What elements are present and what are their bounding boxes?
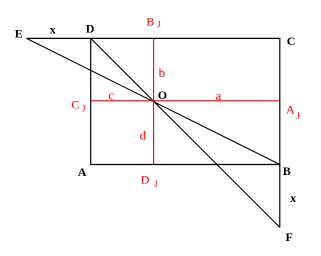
node C1 label <box>71 98 86 114</box>
node D1 label <box>141 173 158 190</box>
node F label <box>286 230 293 244</box>
svg-text:F: F <box>286 230 293 244</box>
wire: diagonal D-F through O <box>91 38 280 227</box>
wire: red horizontal line C1-O-A1 <box>91 100 279 102</box>
svg-text:x: x <box>50 23 56 37</box>
svg-text:J: J <box>296 111 300 121</box>
svg-text:B: B <box>283 164 291 178</box>
svg-text:J: J <box>154 179 158 189</box>
node E label <box>15 26 23 40</box>
wire: diagonal E-B through O <box>27 38 280 164</box>
svg-text:D: D <box>141 173 150 187</box>
node A1 label <box>286 103 300 122</box>
svg-text:J: J <box>157 20 161 30</box>
svg-text:d: d <box>140 127 147 142</box>
value label b <box>159 65 166 80</box>
value label c <box>108 88 114 103</box>
svg-text:C: C <box>71 98 79 112</box>
svg-text:x: x <box>290 191 296 205</box>
wire: left edge D-A of rectangle <box>90 38 92 165</box>
svg-text:D: D <box>86 22 95 36</box>
node O label <box>158 88 167 102</box>
node C label <box>287 34 296 48</box>
wire: bottom edge A-B of rectangle <box>90 164 280 166</box>
node B label <box>283 164 291 178</box>
value label d <box>140 127 147 142</box>
svg-text:C: C <box>287 34 296 48</box>
node B1 label <box>146 14 161 29</box>
svg-text:B: B <box>146 14 154 28</box>
wire: vertical line C-B-F (right edge of rectangle extended down to F) <box>279 38 281 228</box>
svg-text:b: b <box>159 65 166 80</box>
wire: red vertical line B1-O-D1 <box>153 39 155 164</box>
svg-text:O: O <box>158 88 167 102</box>
svg-text:A: A <box>78 165 87 179</box>
svg-text:c: c <box>108 88 114 103</box>
value label a <box>216 88 222 103</box>
node D label <box>86 22 95 36</box>
svg-text:E: E <box>15 26 23 40</box>
value label x (segment BF) <box>290 191 296 205</box>
svg-text:a: a <box>216 88 222 103</box>
value label x (segment ED) <box>50 23 56 37</box>
node A label <box>78 165 87 179</box>
wire: horizontal line E-D-C (top edge of rectangle extended to E) <box>27 37 281 39</box>
svg-text:J: J <box>82 104 86 114</box>
svg-text:A: A <box>286 103 295 117</box>
